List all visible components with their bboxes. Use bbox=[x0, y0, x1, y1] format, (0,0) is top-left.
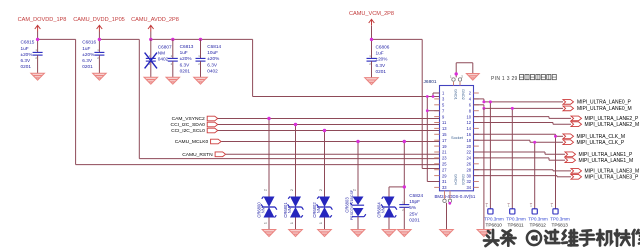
svg-text:1uF: 1uF bbox=[376, 50, 384, 55]
ground bottom x=483.9 (under watermark) bbox=[477, 230, 491, 237]
svg-text:TP0.3mm: TP0.3mm bbox=[528, 217, 548, 222]
test point TP6811 bbox=[506, 209, 526, 228]
node junction on signal at x=324.5 bbox=[323, 129, 326, 132]
port MIPI_ULTRA_LANE1_M bbox=[565, 158, 633, 164]
svg-text:CAMU_VCM_2P8: CAMU_VCM_2P8 bbox=[349, 11, 394, 17]
svg-text:C6806: C6806 bbox=[376, 44, 390, 49]
svg-text:2: 2 bbox=[353, 189, 357, 191]
svg-text:CAM_DOVDD_1P8: CAM_DOVDD_1P8 bbox=[18, 17, 67, 23]
svg-text:0201: 0201 bbox=[82, 64, 93, 69]
svg-text:C6816: C6816 bbox=[82, 40, 96, 45]
svg-text:21: 21 bbox=[442, 150, 447, 155]
svg-text:1: 1 bbox=[319, 222, 323, 224]
wire TP6811 bbox=[511, 108, 513, 208]
diode TVS CR6803 PESD7V7V1BCSF bbox=[344, 189, 365, 230]
svg-text:6.3V: 6.3V bbox=[376, 63, 387, 68]
svg-text:25V: 25V bbox=[409, 211, 418, 216]
node junction on signal at x=358.0 bbox=[356, 140, 359, 143]
svg-text:MIPI_ULTRA_LANE0_M: MIPI_ULTRA_LANE0_M bbox=[577, 106, 632, 112]
ground CR6802 bbox=[318, 230, 332, 237]
svg-text:NM: NM bbox=[316, 206, 321, 213]
wire CR6801 branch bbox=[295, 125, 297, 197]
svg-text:24: 24 bbox=[466, 156, 471, 161]
svg-text:TP0.3mm: TP0.3mm bbox=[550, 217, 570, 222]
port MIPI_ULTRA_LANE2_P bbox=[571, 116, 639, 122]
capacitor C6824 bbox=[399, 193, 423, 230]
svg-text:27: 27 bbox=[442, 167, 447, 172]
node top post junction bbox=[455, 72, 458, 75]
svg-text:1: 1 bbox=[290, 222, 294, 224]
wire MIPI_ULTRA_CLK_P bbox=[474, 140, 564, 142]
svg-text:31: 31 bbox=[442, 179, 447, 184]
svg-text:1uF: 1uF bbox=[180, 50, 188, 55]
svg-text:0201: 0201 bbox=[180, 68, 191, 73]
wire MIPI_ULTRA_LANE1_M bbox=[474, 158, 566, 160]
svg-text:±20%: ±20% bbox=[376, 57, 388, 62]
svg-text:15: 15 bbox=[442, 132, 447, 137]
ground CR6803 bbox=[351, 230, 365, 237]
ground connector bottom bbox=[440, 230, 454, 237]
wire C6824/CR6804 branch vertical bbox=[389, 142, 404, 205]
svg-text:Socket: Socket bbox=[451, 135, 464, 140]
node junction TP6810 bbox=[489, 100, 492, 103]
svg-text:14: 14 bbox=[466, 126, 471, 131]
svg-text:1uF: 1uF bbox=[82, 46, 90, 51]
svg-text:0402: 0402 bbox=[158, 57, 169, 62]
power symbol CAMU_DVDD_1P05 bbox=[73, 17, 125, 32]
wire CAMU_VCM_2P8 rail bbox=[372, 26, 440, 169]
wire MIPI_ULTRA_LANE1_P bbox=[474, 152, 566, 154]
connector inner labels GND1 GND2 bbox=[454, 89, 466, 100]
port MIPI_ULTRA_LANE3_M bbox=[571, 169, 639, 175]
wire CAM_DOVDD_1P8 rail bbox=[38, 32, 440, 165]
svg-text:MIPI_ULTRA_LANE0_P: MIPI_ULTRA_LANE0_P bbox=[577, 100, 631, 106]
svg-text:PESD7V7V1BCSF: PESD7V7V1BCSF bbox=[350, 189, 354, 220]
connector pin stubs left bbox=[434, 93, 439, 187]
connector pin stubs right bbox=[474, 93, 479, 187]
wire inner ground bus bbox=[427, 97, 439, 182]
svg-text:1uF: 1uF bbox=[21, 46, 29, 51]
node junction TP6812 bbox=[533, 141, 536, 144]
svg-text:CAMU_MCLK0: CAMU_MCLK0 bbox=[175, 139, 209, 145]
svg-text:30: 30 bbox=[466, 173, 471, 178]
wire MIPI_ULTRA_LANE2_P bbox=[474, 117, 572, 119]
ground C6814 bbox=[194, 77, 208, 84]
svg-text:15pF: 15pF bbox=[409, 199, 420, 204]
svg-text:CCI_I2C_SDA0: CCI_I2C_SDA0 bbox=[171, 122, 206, 128]
svg-text:6.3V: 6.3V bbox=[207, 62, 218, 67]
svg-text:±20%: ±20% bbox=[207, 56, 219, 61]
capacitor C6807 (NM, crossed out) bbox=[145, 39, 172, 77]
wire TP6810 bbox=[489, 102, 491, 209]
port MIPI_ULTRA_LANE2_M bbox=[571, 122, 639, 128]
svg-text:GND1: GND1 bbox=[454, 89, 459, 100]
wire CAMU_MCLK0 bbox=[221, 141, 439, 143]
node CAM_DOVDD_1P8 junction bbox=[36, 38, 39, 41]
capacitor C6814 bbox=[196, 39, 222, 77]
node inner bus junctions bbox=[426, 95, 429, 112]
port CAM_VSYNC2 bbox=[172, 116, 218, 122]
svg-text:10: 10 bbox=[466, 114, 471, 119]
svg-text:6.3V: 6.3V bbox=[21, 58, 32, 63]
ground CR6804 bbox=[382, 230, 396, 237]
wire top post to ground bbox=[456, 63, 473, 78]
svg-text:MIPI_ULTRA_LANE1_M: MIPI_ULTRA_LANE1_M bbox=[579, 158, 634, 164]
capacitor C6806 bbox=[367, 44, 390, 77]
svg-text:2: 2 bbox=[290, 189, 294, 191]
port CCI_I2C_SCL0 bbox=[171, 128, 218, 134]
port CCI_I2C_SDA0 bbox=[171, 122, 218, 128]
port CAMU_RSTN bbox=[182, 152, 225, 158]
svg-text:25: 25 bbox=[442, 162, 447, 167]
ground C6813 bbox=[166, 77, 180, 84]
node junction on signal at x=269.0 bbox=[267, 117, 270, 120]
wire CR6803 branch bbox=[357, 142, 359, 197]
svg-text:J6801: J6801 bbox=[424, 79, 437, 85]
node CAMU_DVDD_1P05 junction bbox=[98, 38, 101, 41]
svg-text:33: 33 bbox=[442, 185, 447, 190]
port MIPI_ULTRA_LANE1_P bbox=[565, 152, 633, 158]
svg-text:19: 19 bbox=[442, 144, 447, 149]
svg-text:10uF: 10uF bbox=[207, 50, 218, 55]
node junction MCLK0/C6824 bbox=[403, 140, 406, 189]
wire CAM_VSYNC2 bbox=[218, 118, 440, 120]
svg-text:0201: 0201 bbox=[409, 218, 420, 223]
transistor/diode TVS CR6800 bbox=[256, 189, 277, 230]
svg-text:PIN 1 3 29: PIN 1 3 29 bbox=[491, 76, 518, 82]
capacitor C6813 bbox=[168, 39, 194, 77]
ground C6816 bbox=[93, 73, 107, 80]
wire CR6800 branch bbox=[268, 119, 270, 197]
port MIPI_ULTRA_CLK_P bbox=[563, 140, 625, 146]
svg-text:NM: NM bbox=[381, 206, 386, 213]
wire CAMU_DVDD_1P05 rail bbox=[99, 32, 439, 159]
svg-text:0402: 0402 bbox=[207, 68, 218, 73]
port CAMU_MCLK0 bbox=[175, 139, 221, 145]
svg-text:CR6803: CR6803 bbox=[344, 197, 349, 213]
svg-text:6.3V: 6.3V bbox=[180, 62, 191, 67]
power symbol CAMU_VCM_2P8 bbox=[349, 11, 394, 26]
svg-text:NM: NM bbox=[158, 50, 165, 55]
wire CCI_I2C_SDA0 bbox=[218, 124, 440, 126]
svg-text:GND3: GND3 bbox=[461, 174, 466, 185]
svg-text:5%: 5% bbox=[409, 205, 416, 210]
ground C6806 bbox=[365, 78, 379, 85]
svg-text:±20%: ±20% bbox=[180, 56, 192, 61]
node LANE0 jog junctions bbox=[482, 100, 485, 110]
svg-text:2: 2 bbox=[264, 189, 268, 191]
node junction TP6811 bbox=[511, 107, 514, 110]
svg-text:MIPI_ULTRA_CLK_P: MIPI_ULTRA_CLK_P bbox=[577, 140, 625, 146]
test point TP6810 bbox=[484, 209, 504, 228]
svg-text:6.3V: 6.3V bbox=[82, 58, 93, 63]
ground C6824 bbox=[398, 230, 412, 237]
svg-text:32: 32 bbox=[466, 179, 471, 184]
svg-text:2: 2 bbox=[319, 189, 323, 191]
svg-text:TP6810: TP6810 bbox=[486, 222, 503, 227]
note PIN 1 3 29 separate ground bbox=[491, 75, 556, 82]
svg-text:C6807: C6807 bbox=[158, 44, 172, 49]
svg-text:±20%: ±20% bbox=[21, 52, 33, 57]
ground connector top bbox=[466, 74, 479, 81]
wire CAMU_AVDD_2P8 bus bbox=[151, 32, 440, 97]
wire pin1/pin3 tie bbox=[433, 93, 440, 97]
svg-text:17: 17 bbox=[442, 138, 447, 143]
node bottom post junction bbox=[448, 202, 451, 205]
svg-text:C6824: C6824 bbox=[409, 193, 423, 198]
svg-text:23: 23 bbox=[442, 156, 447, 161]
svg-text:0201: 0201 bbox=[21, 64, 32, 69]
svg-text:TP0.3mm: TP0.3mm bbox=[506, 217, 526, 222]
watermark 头条 @迅维手机快修 bbox=[484, 230, 640, 246]
svg-text:MIPI_ULTRA_LANE2_M: MIPI_ULTRA_LANE2_M bbox=[585, 122, 640, 128]
svg-text:18: 18 bbox=[466, 138, 471, 143]
connector inner labels GND4 GND3 bbox=[454, 174, 466, 186]
svg-text:TP6813: TP6813 bbox=[552, 222, 569, 227]
port MIPI_ULTRA_CLK_M bbox=[563, 134, 625, 140]
transistor/diode TVS CR6802 bbox=[312, 189, 333, 230]
wire MIPI_ULTRA_LANE0_M bbox=[474, 105, 564, 109]
power symbol CAM_DOVDD_1P8 bbox=[18, 17, 67, 32]
wire bottom post to ground bbox=[446, 203, 448, 230]
wire MIPI_ULTRA_LANE0_P bbox=[474, 99, 564, 102]
svg-text:CAMU_AVDD_2P8: CAMU_AVDD_2P8 bbox=[131, 17, 179, 23]
connector bottom posts bbox=[443, 191, 452, 203]
node junction on signal at x=295.5 bbox=[294, 123, 297, 126]
node junction TP6813 bbox=[554, 135, 557, 138]
svg-text:1: 1 bbox=[264, 222, 268, 224]
svg-text:13: 13 bbox=[442, 126, 447, 131]
wire MIPI_ULTRA_LANE3_P bbox=[474, 176, 572, 177]
svg-text:NM: NM bbox=[287, 206, 292, 213]
svg-text:11: 11 bbox=[442, 120, 447, 125]
test point TP6813 bbox=[550, 209, 570, 228]
svg-text:BM24-40DS-0.4V(51: BM24-40DS-0.4V(51 bbox=[435, 194, 476, 199]
svg-text:NM: NM bbox=[261, 206, 266, 213]
ground C6807 bbox=[144, 77, 158, 84]
power symbol CAMU_AVDD_2P8 bbox=[131, 17, 179, 32]
svg-text:GND4: GND4 bbox=[454, 174, 459, 186]
svg-text:C6815: C6815 bbox=[21, 40, 35, 45]
wire CAMU_RSTN bbox=[226, 153, 440, 155]
svg-text:CAMU_RSTN: CAMU_RSTN bbox=[182, 152, 213, 158]
svg-text:26: 26 bbox=[466, 162, 471, 167]
svg-text:MIPI_ULTRA_LANE3_P: MIPI_ULTRA_LANE3_P bbox=[585, 175, 639, 181]
ground CR6800 bbox=[262, 230, 276, 237]
transistor/diode TVS CR6801 bbox=[283, 189, 304, 230]
ground C6815 bbox=[31, 73, 45, 80]
svg-text:16: 16 bbox=[466, 132, 471, 137]
ground CR6801 bbox=[289, 230, 303, 237]
svg-text:TP0.3mm: TP0.3mm bbox=[484, 217, 504, 222]
connector top posts bbox=[450, 75, 463, 86]
wire MIPI_ULTRA_LANE2_M bbox=[474, 123, 572, 125]
node CAMU_VCM_2P8 junction bbox=[370, 38, 373, 41]
wire ground drop x=483.9 bbox=[483, 108, 485, 229]
svg-text:C6813: C6813 bbox=[180, 44, 194, 49]
svg-text:CAMU_DVDD_1P05: CAMU_DVDD_1P05 bbox=[73, 17, 125, 23]
connector pin numbers bbox=[442, 91, 472, 190]
capacitor C6816 bbox=[82, 40, 104, 74]
capacitor C6815 bbox=[21, 40, 43, 74]
svg-text:28: 28 bbox=[466, 167, 471, 172]
svg-text:CAM_VSYNC2: CAM_VSYNC2 bbox=[172, 116, 205, 122]
wire CCI_I2C_SCL0 bbox=[218, 130, 440, 132]
svg-text:CCI_I2C_SCL0: CCI_I2C_SCL0 bbox=[171, 128, 205, 134]
port MIPI_ULTRA_LANE0_M bbox=[563, 106, 632, 112]
svg-text:±20%: ±20% bbox=[82, 52, 94, 57]
wire MIPI_ULTRA_CLK_M bbox=[474, 134, 564, 136]
svg-text:34: 34 bbox=[466, 185, 471, 190]
connector J6801 body bbox=[424, 79, 474, 191]
svg-text:29: 29 bbox=[442, 173, 447, 178]
svg-text:TP6812: TP6812 bbox=[530, 222, 547, 227]
diode TVS CR6804 bbox=[376, 197, 397, 230]
svg-text:TP6811: TP6811 bbox=[508, 222, 524, 227]
wire TP6812 bbox=[534, 142, 536, 209]
svg-text:GND2: GND2 bbox=[461, 89, 466, 100]
node CAMU_AVDD_2P8 junctions bbox=[149, 38, 202, 41]
port MIPI_ULTRA_LANE3_P bbox=[571, 174, 639, 180]
test point pin ticks bbox=[486, 203, 553, 207]
svg-text:12: 12 bbox=[466, 120, 471, 125]
port MIPI_ULTRA_LANE0_P bbox=[563, 100, 631, 106]
test point TP6812 bbox=[528, 209, 548, 228]
wire CR6802 branch bbox=[324, 131, 326, 197]
svg-text:20: 20 bbox=[466, 144, 471, 149]
svg-text:C6814: C6814 bbox=[207, 44, 221, 49]
wire TP6813 bbox=[555, 136, 557, 209]
svg-text:22: 22 bbox=[466, 150, 471, 155]
wire MIPI_ULTRA_LANE3_M bbox=[474, 170, 572, 171]
svg-text:0201: 0201 bbox=[376, 69, 387, 74]
node pin3 tie bbox=[432, 95, 435, 98]
